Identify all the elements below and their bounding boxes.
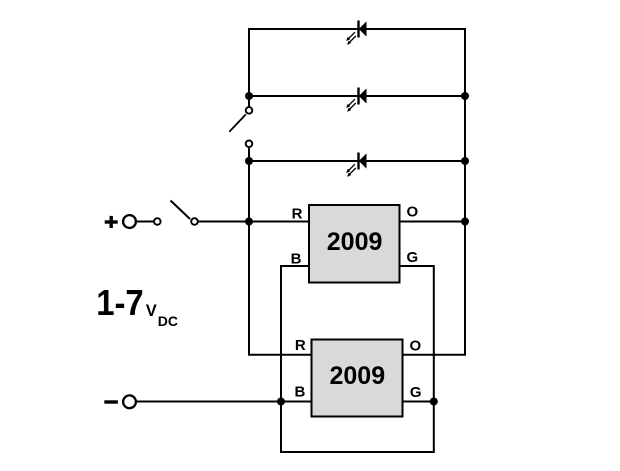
svg-text:B: B [291, 251, 302, 268]
svg-text:O: O [410, 337, 422, 354]
svg-text:V: V [146, 302, 157, 320]
svg-text:O: O [407, 204, 419, 221]
svg-text:2009: 2009 [327, 228, 383, 256]
svg-text:B: B [294, 383, 305, 400]
svg-text:1-7: 1-7 [96, 282, 144, 323]
svg-text:G: G [407, 249, 419, 266]
svg-text:2009: 2009 [329, 362, 385, 390]
svg-text:R: R [295, 337, 306, 354]
svg-text:G: G [410, 384, 422, 401]
svg-text:R: R [292, 205, 303, 222]
svg-text:DC: DC [158, 313, 178, 329]
